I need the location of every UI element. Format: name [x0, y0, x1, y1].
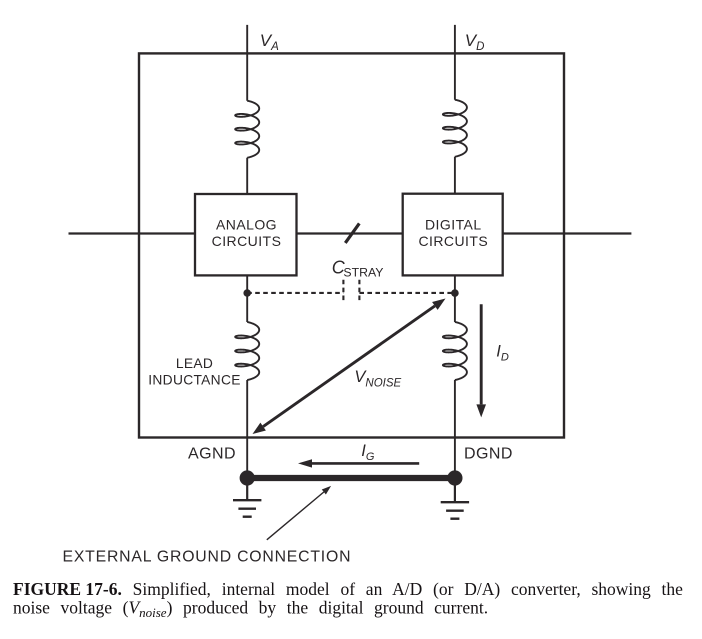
svg-text:INDUCTANCE: INDUCTANCE: [148, 372, 240, 387]
svg-text:FIGURE 17-6. Simplified, inter: FIGURE 17-6. Simplified, internal model …: [13, 579, 683, 599]
svg-text:CIRCUITS: CIRCUITS: [212, 233, 282, 249]
svg-text:AGND: AGND: [188, 446, 236, 463]
svg-text:STRAY: STRAY: [343, 265, 383, 279]
svg-text:LEAD: LEAD: [176, 356, 213, 371]
svg-text:ANALOG: ANALOG: [216, 217, 277, 233]
svg-text:DIGITAL: DIGITAL: [425, 217, 482, 233]
svg-text:EXTERNAL GROUND CONNECTION: EXTERNAL GROUND CONNECTION: [63, 548, 352, 565]
svg-text:DGND: DGND: [464, 446, 513, 463]
svg-text:CIRCUITS: CIRCUITS: [418, 233, 488, 249]
svg-text:noise voltage (Vnoise) produce: noise voltage (Vnoise) produced by the d…: [13, 598, 488, 621]
